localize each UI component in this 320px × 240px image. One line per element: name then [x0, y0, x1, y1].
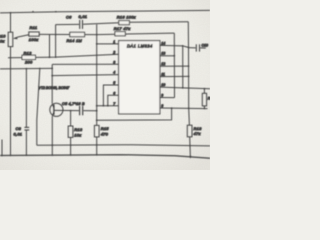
node dot return wire junction — [96, 119, 98, 121]
svg-text:10к: 10к — [74, 132, 82, 137]
node dot rail145 R15 — [96, 144, 98, 146]
node dot rail155 R15 — [96, 154, 98, 156]
svg-text:13: 13 — [161, 52, 165, 56]
wire pin5 — [103, 85, 118, 106]
node dot rail155 left edge — [1, 155, 3, 157]
node dot rail145 emitter — [51, 144, 53, 146]
node dot x55.6 on divider line — [55, 34, 57, 36]
node dot pin5 to pin7 — [103, 105, 105, 107]
svg-text:14: 14 — [161, 41, 165, 45]
wire pin4 — [52, 75, 118, 76]
wire ground rail y155 — [0, 155, 210, 159]
svg-text:R: R — [208, 97, 210, 101]
transistor VT2 base bar — [53, 105, 55, 115]
node dot pin8 return — [171, 107, 173, 109]
wire left edge stub — [1, 140, 3, 156]
node dot R12 line pot crossing — [10, 57, 12, 59]
svg-text:2: 2 — [112, 50, 115, 54]
svg-text:C10: C10 — [202, 44, 208, 48]
node dot rail155 pot — [10, 155, 12, 157]
svg-text:10: 10 — [161, 83, 165, 87]
node dot x55.6 — [55, 56, 57, 58]
svg-text:R11: R11 — [30, 25, 38, 30]
wire pin11 — [160, 75, 189, 77]
node dot on top rail x56 — [55, 11, 57, 13]
wire pin10 out right edge — [160, 87, 210, 89]
wire input line left — [0, 67, 52, 70]
wire vertical x96.7 output node — [96, 24, 98, 125]
potentiometer R10 body — [8, 32, 13, 46]
svg-text:C8: C8 — [16, 126, 22, 131]
svg-text:R14 1М: R14 1М — [67, 38, 83, 43]
resistor R18 — [187, 125, 192, 137]
wire R12 / pin2 line — [8, 54, 119, 57]
svg-text:R10: R10 — [0, 33, 6, 38]
svg-text:3: 3 — [113, 60, 115, 64]
node dot rail155 C8 — [26, 154, 28, 156]
node dot C cap junction — [188, 47, 190, 49]
resistor R15 — [94, 125, 99, 136]
svg-text:8: 8 — [161, 104, 163, 108]
node dot pin8 R18 — [188, 107, 190, 109]
wire pot feed vertical from rail — [10, 13, 12, 32]
wire ground drop x39 — [37, 69, 40, 146]
wire pin14 — [160, 45, 189, 47]
wire vertical A R17 to pin9 — [173, 33, 175, 98]
node dot pin10 B junction — [182, 87, 184, 89]
node dot C5 junction — [96, 110, 98, 112]
capacitor C5 plates — [79, 106, 81, 115]
wire pin6 — [108, 95, 119, 106]
node dot rail155 R18 — [190, 156, 192, 158]
node dot pin13 — [173, 55, 175, 57]
svg-text:DA1 LM324: DA1 LM324 — [127, 44, 153, 49]
wire transistor output to C5 — [54, 109, 79, 111]
svg-text:0,01: 0,01 — [14, 131, 23, 136]
node dot rail155 R13 — [70, 154, 72, 156]
resistor R13 — [70, 111, 72, 126]
node dot pin7 junction — [96, 105, 98, 107]
capacitor C8 vertical leg — [25, 69, 27, 127]
transistor VT2 collector diagonal — [52, 104, 54, 107]
wire pin3 — [52, 63, 118, 65]
capacitor C10 wire — [189, 47, 196, 49]
node dot x49.5 — [49, 56, 51, 58]
svg-text:0,01: 0,01 — [79, 14, 88, 19]
capacitor C8 plates — [24, 126, 29, 128]
wire vertical x49.5 divider tap — [49, 35, 51, 58]
node dot R13 tap — [70, 110, 72, 112]
svg-text:R15: R15 — [101, 126, 110, 131]
svg-text:100к: 100к — [29, 37, 39, 42]
node dot pin1 — [96, 43, 98, 45]
wire pin12 — [160, 65, 189, 67]
svg-text:11: 11 — [161, 72, 165, 76]
wire transistor collector stem — [51, 64, 53, 103]
svg-text:C5 4,7*16 В: C5 4,7*16 В — [62, 102, 85, 106]
wire pin9 — [160, 97, 175, 99]
node dot rail145 R18 — [189, 145, 191, 147]
node dot input C8 tap — [26, 68, 28, 70]
node dot pin8 R19 — [204, 108, 206, 110]
node dot rail155 emitter — [51, 154, 53, 156]
svg-text:12: 12 — [161, 62, 165, 66]
wire top supply rail — [0, 10, 210, 13]
node dot input pot crossing — [10, 68, 12, 70]
wire pot vertical down — [10, 47, 12, 156]
svg-text:R17 47к: R17 47к — [114, 26, 131, 31]
wire R16 branch — [129, 21, 188, 24]
op-amp IC DA1 LM324 body — [119, 41, 160, 114]
svg-text:R18: R18 — [194, 126, 203, 131]
resistor R14 — [70, 32, 85, 36]
svg-text:1: 1 — [113, 40, 115, 44]
wire feedback return under IC — [97, 108, 172, 120]
resistor R12 — [22, 55, 36, 59]
svg-text:R12: R12 — [24, 50, 33, 55]
node dot top rail pot junction — [10, 12, 12, 14]
node dot input transistor stem — [51, 68, 53, 70]
svg-text:200: 200 — [24, 59, 33, 64]
node dot rail145 R13 — [70, 144, 72, 146]
svg-text:4: 4 — [113, 71, 115, 75]
node dot input x39.8 tap — [39, 68, 41, 70]
wire vertical C R16 down — [188, 22, 189, 125]
capacitor C6 plates — [79, 20, 81, 29]
node dot pin14 — [182, 45, 184, 47]
node dot pin6 to pin7 — [107, 105, 109, 107]
node dot pin10 R19 — [204, 88, 206, 90]
svg-text:R13: R13 — [74, 127, 83, 132]
wire main divider line R11 to R14 to R17 — [39, 33, 174, 35]
node dot x96.7 divider — [96, 34, 98, 36]
node dot pin12 — [188, 65, 190, 67]
wire vertical B pin14 to pin10 — [182, 46, 184, 88]
node dot on top rail x33 — [32, 11, 34, 13]
capacitor C10 plates — [195, 44, 197, 51]
svg-text:470: 470 — [101, 131, 109, 136]
node dot pin11 — [188, 76, 190, 78]
svg-text:47к: 47к — [194, 131, 202, 136]
resistor R17 — [115, 32, 125, 36]
wire pin1 — [97, 43, 119, 45]
resistor R11 — [29, 32, 39, 36]
capacitor C6 top branch wire — [56, 23, 79, 25]
node dot pin4 stem — [51, 75, 53, 77]
svg-text:9: 9 — [161, 93, 163, 97]
wire ground rail y145 — [37, 145, 210, 146]
wire pin13 — [160, 55, 174, 57]
wire vertical x55.6 C6 left leg — [55, 25, 57, 58]
svg-text:C6: C6 — [66, 14, 72, 19]
resistor R16 — [119, 21, 130, 25]
wire pin7 — [97, 105, 119, 107]
transistor VT2 emitter down wire — [51, 116, 53, 155]
svg-text:R16 100к: R16 100к — [117, 15, 137, 20]
transistor VT2 body — [50, 103, 63, 116]
wire C5 to node — [83, 110, 96, 112]
resistor R19 right edge — [203, 89, 205, 94]
svg-text:VT2 BC546, BC547: VT2 BC546, BC547 — [39, 86, 71, 90]
transistor VT2 emitter diagonal — [52, 112, 54, 116]
potentiometer wiper arrow — [14, 35, 29, 39]
wire pin8 — [160, 107, 208, 110]
